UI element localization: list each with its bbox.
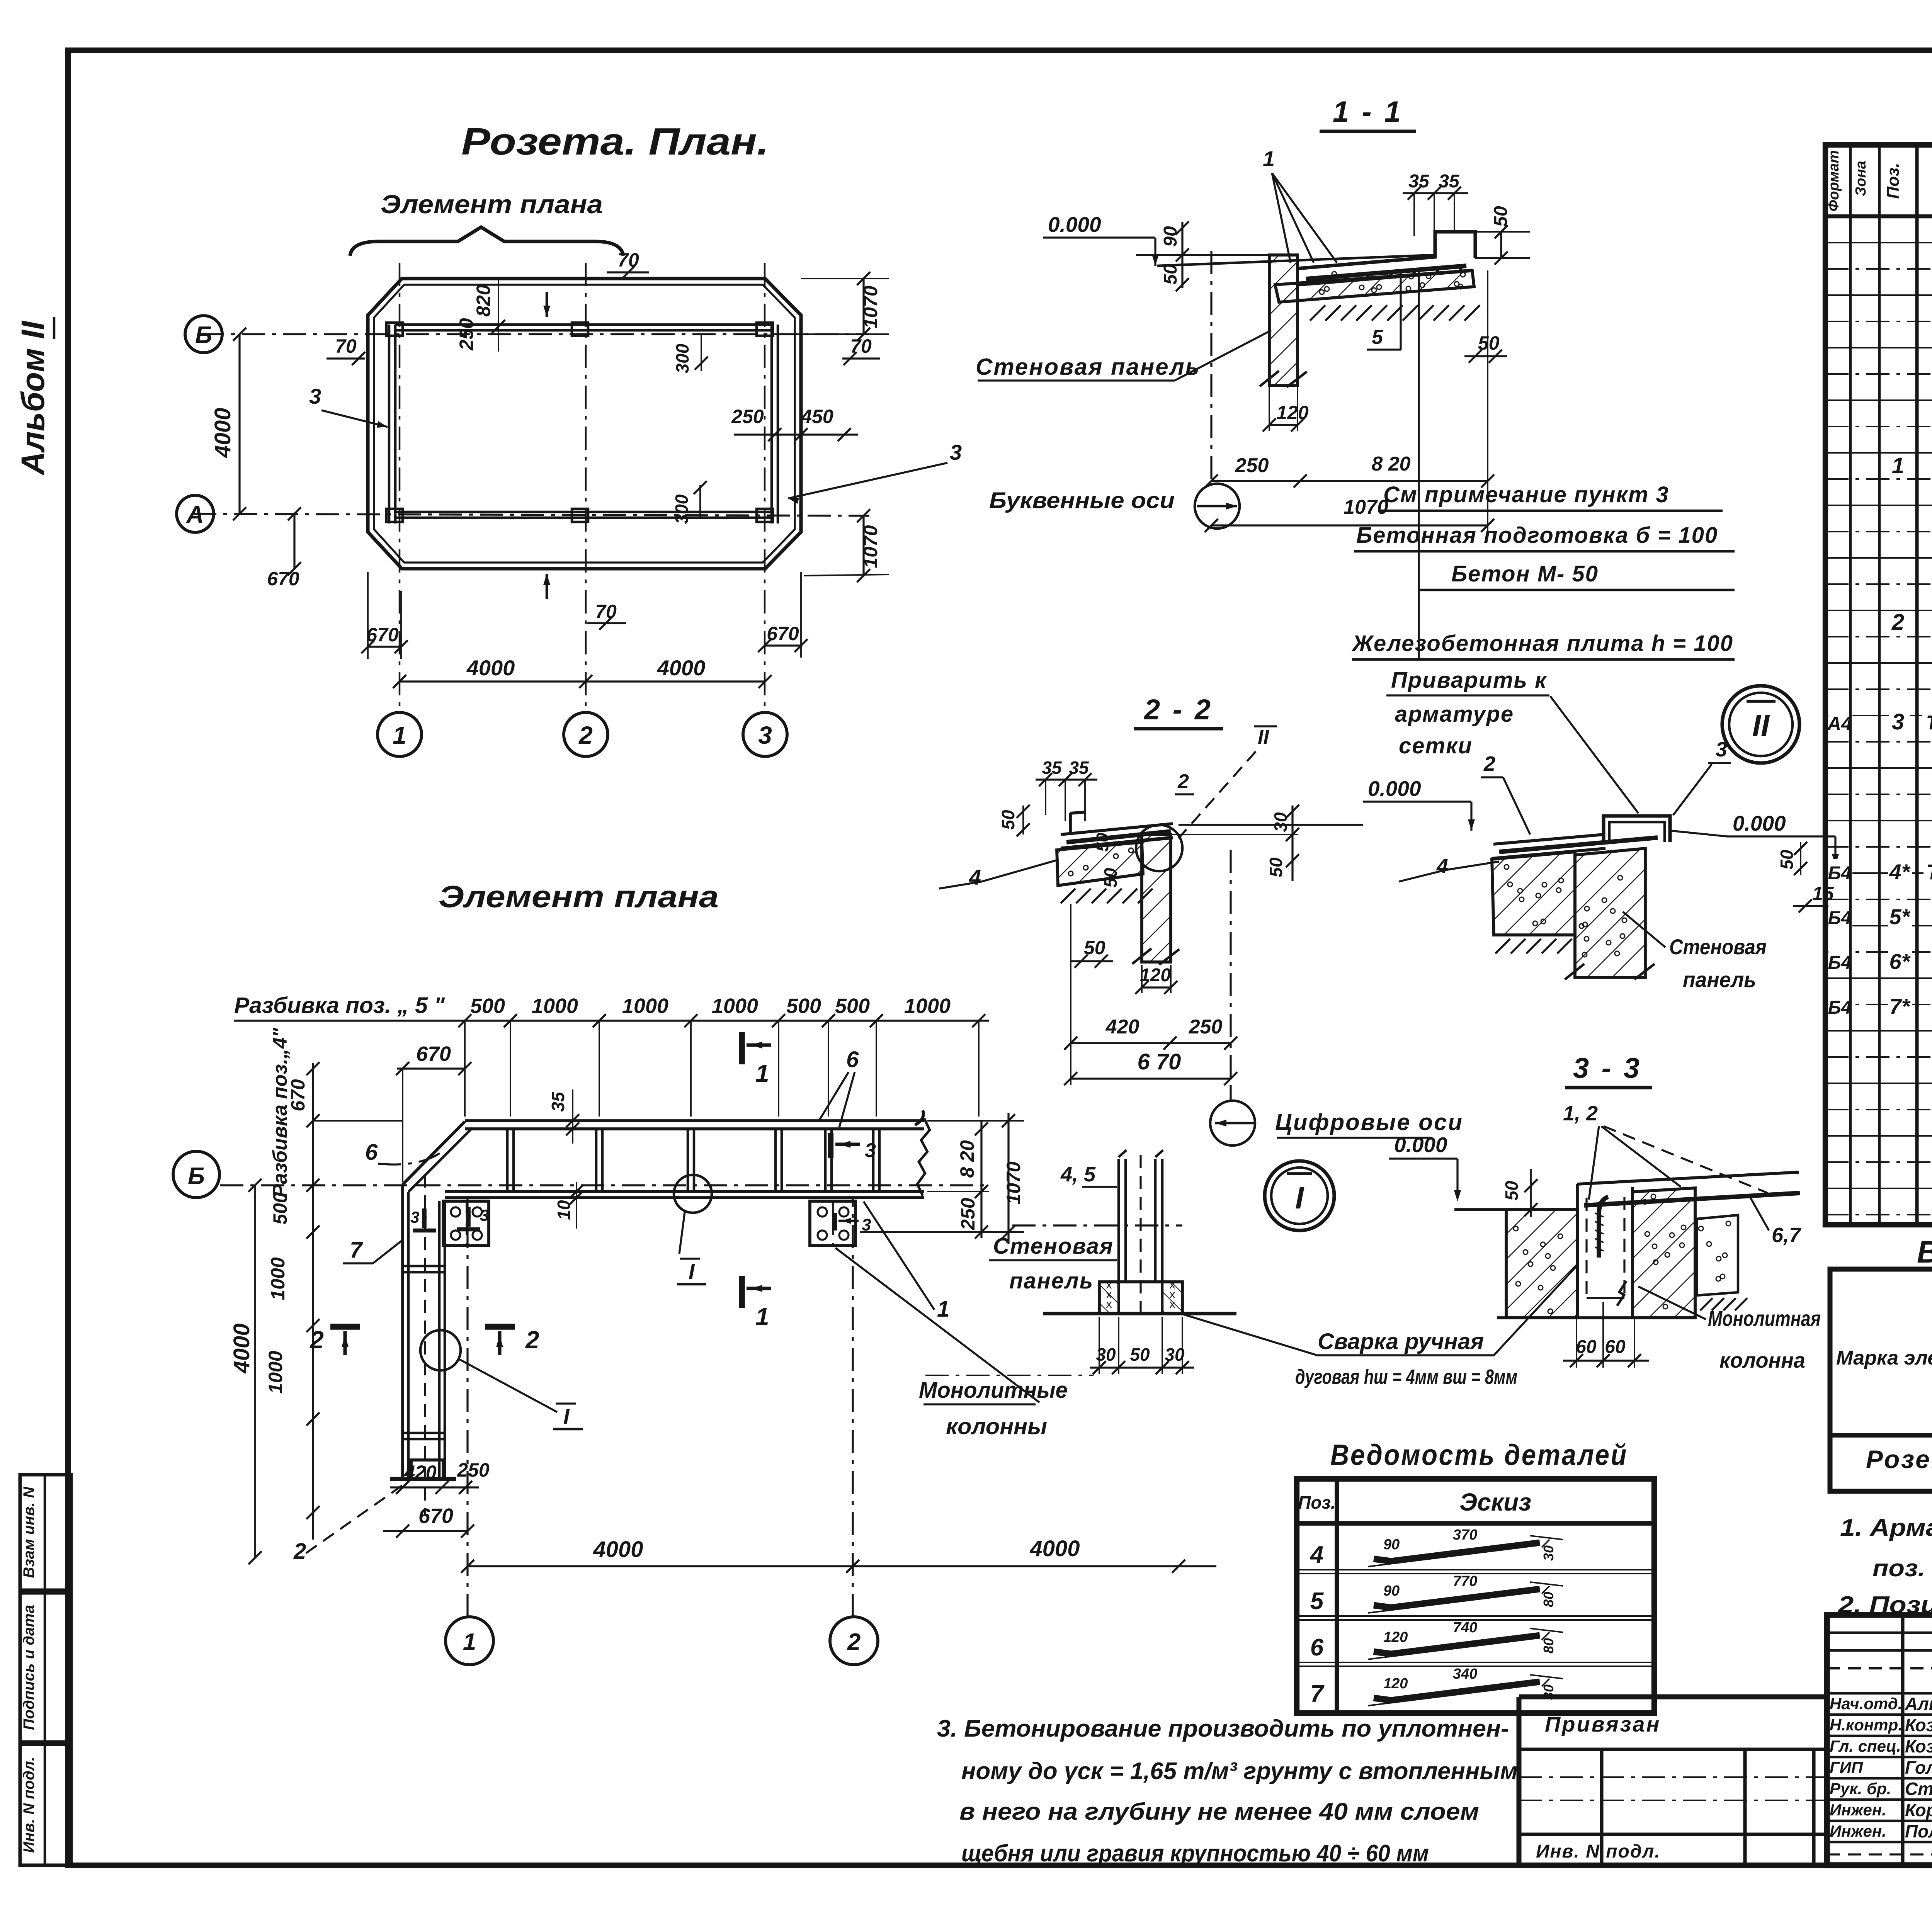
svg-text:Приварить к: Приварить к — [1391, 668, 1547, 693]
svg-text:5*: 5* — [1889, 904, 1911, 929]
svg-text:Монолитные: Монолитные — [919, 1378, 1068, 1403]
svg-text:670: 670 — [418, 1504, 453, 1528]
svg-text:250: 250 — [1235, 454, 1269, 477]
svg-text:3. Бетонирование производить: 3. Бетонирование производить по уплотнен… — [937, 1715, 1509, 1742]
svg-text:Инжен.: Инжен. — [1830, 1822, 1886, 1840]
svg-text:50: 50 — [1160, 264, 1181, 285]
svg-text:740: 740 — [1453, 1620, 1477, 1636]
svg-text:Ведомость деталей: Ведомость деталей — [1330, 1439, 1628, 1472]
svg-text:арматуре: арматуре — [1395, 702, 1514, 727]
svg-text:120: 120 — [1383, 1629, 1408, 1645]
svg-text:1. Арматурные сетки поз. „: 1. Арматурные сетки поз. „1" резать шири… — [1840, 1514, 1932, 1541]
svg-text:250: 250 — [1189, 1016, 1223, 1038]
svg-text:Инв. N подл.: Инв. N подл. — [20, 1757, 37, 1853]
svg-text:Козловичер: Козловичер — [1905, 1736, 1932, 1756]
svg-text:Разбивка поз. „ 5 ": Разбивка поз. „ 5 " — [234, 993, 446, 1018]
svg-text:50: 50 — [1100, 868, 1121, 888]
svg-text:Подпись и дата: Подпись и дата — [20, 1605, 37, 1730]
svg-text:1: 1 — [755, 1059, 769, 1087]
svg-text:1000: 1000 — [904, 994, 951, 1018]
svg-text:50: 50 — [1491, 206, 1511, 227]
svg-text:I: I — [563, 1404, 570, 1428]
svg-text:Розета. План.: Розета. План. — [461, 120, 769, 163]
svg-text:2: 2 — [525, 1326, 539, 1354]
svg-text:Станина: Станина — [1905, 1779, 1932, 1799]
svg-text:670: 670 — [366, 624, 399, 646]
svg-text:6: 6 — [846, 1047, 859, 1072]
svg-text:6,7: 6,7 — [1772, 1224, 1802, 1247]
svg-text:0.000: 0.000 — [1394, 1133, 1447, 1157]
svg-text:Корнилова: Корнилова — [1905, 1800, 1932, 1820]
svg-text:4000: 4000 — [210, 408, 235, 458]
svg-text:4000: 4000 — [657, 656, 706, 680]
svg-text:Б: Б — [195, 322, 212, 348]
svg-text:50: 50 — [1266, 857, 1286, 877]
svg-text:70: 70 — [617, 249, 639, 271]
svg-text:3: 3 — [865, 1139, 876, 1162]
svg-text:670: 670 — [267, 568, 299, 590]
svg-text:щебня или гравия крупностью: щебня или гравия крупностью 40 ÷ 60 мм — [961, 1840, 1429, 1867]
svg-text:7: 7 — [350, 1237, 363, 1263]
svg-text:Инв. N подл.: Инв. N подл. — [1536, 1841, 1661, 1862]
svg-text:60: 60 — [1605, 1337, 1626, 1357]
svg-text:1: 1 — [463, 1629, 476, 1655]
svg-text:1: 1 — [937, 1297, 949, 1322]
svg-text:500: 500 — [835, 994, 870, 1018]
svg-text:50: 50 — [1777, 850, 1797, 870]
svg-text:Бетонная подготовка б = 100: Бетонная подготовка б = 100 — [1356, 523, 1718, 548]
svg-text:2: 2 — [293, 1539, 306, 1564]
svg-text:30: 30 — [1541, 1684, 1556, 1700]
svg-text:1: 1 — [1263, 146, 1275, 171]
svg-text:2: 2 — [1891, 610, 1904, 635]
svg-text:70: 70 — [335, 335, 357, 357]
svg-text:370: 370 — [1453, 1527, 1477, 1543]
svg-text:3: 3 — [410, 1208, 419, 1226]
svg-text:x: x — [1170, 1298, 1175, 1310]
svg-text:4000: 4000 — [1029, 1536, 1080, 1561]
svg-text:II: II — [1258, 726, 1269, 748]
svg-text:2: 2 — [847, 1629, 861, 1655]
svg-text:См примечание пункт 3: См примечание пункт 3 — [1383, 482, 1669, 507]
svg-text:Марка элемента: Марка элемента — [1836, 1347, 1932, 1369]
svg-text:1070: 1070 — [1344, 496, 1388, 518]
svg-text:7*: 7* — [1889, 994, 1911, 1018]
svg-text:Бетон М- 50: Бетон М- 50 — [1451, 561, 1599, 586]
svg-text:1, 2: 1, 2 — [1563, 1102, 1598, 1125]
svg-text:Б4: Б4 — [1828, 863, 1852, 884]
svg-text:Полякова: Полякова — [1905, 1821, 1932, 1841]
svg-text:ГИП: ГИП — [1830, 1758, 1863, 1776]
svg-text:1: 1 — [393, 721, 406, 749]
svg-text:50: 50 — [1130, 1344, 1150, 1365]
svg-text:А: А — [186, 501, 204, 528]
svg-text:50: 50 — [1093, 833, 1112, 851]
svg-text:250: 250 — [456, 318, 477, 351]
svg-text:4: 4 — [969, 865, 981, 889]
svg-text:ТП 901-6- 81.85: ТП 901-6- 81.85 — [1926, 860, 1932, 884]
svg-text:Рук. бр.: Рук. бр. — [1830, 1779, 1891, 1798]
svg-text:ТП 901-6-8186-КЖ4.1.9.01,: ТП 901-6-8186-КЖ4.1.9.01, — [1926, 712, 1932, 734]
svg-text:3: 3 — [758, 721, 772, 749]
svg-text:90: 90 — [1160, 226, 1181, 247]
svg-text:2: 2 — [578, 721, 593, 749]
svg-text:50: 50 — [998, 810, 1018, 830]
svg-text:60: 60 — [1576, 1337, 1597, 1357]
svg-text:x: x — [1106, 1298, 1112, 1310]
svg-text:4: 4 — [1310, 1541, 1323, 1568]
svg-text:Розета: Розета — [1866, 1445, 1932, 1474]
svg-text:Зона: Зона — [1853, 161, 1869, 196]
svg-text:450: 450 — [801, 406, 833, 427]
svg-text:0.000: 0.000 — [1368, 777, 1421, 800]
svg-text:0.000: 0.000 — [1733, 811, 1786, 835]
svg-text:6: 6 — [365, 1140, 378, 1165]
svg-text:5: 5 — [1310, 1588, 1324, 1615]
svg-text:820: 820 — [473, 284, 494, 317]
svg-text:6 70: 6 70 — [1138, 1049, 1181, 1074]
svg-text:Стеновая: Стеновая — [1669, 935, 1767, 959]
svg-text:Б4: Б4 — [1828, 998, 1852, 1018]
svg-text:0.000: 0.000 — [1048, 212, 1101, 236]
svg-text:колонна: колонна — [1719, 1348, 1805, 1372]
svg-text:1000: 1000 — [712, 994, 758, 1018]
svg-text:Б: Б — [188, 1163, 205, 1190]
svg-text:Инжен.: Инжен. — [1830, 1801, 1886, 1819]
svg-text:670: 670 — [767, 623, 799, 644]
svg-text:670: 670 — [287, 1079, 309, 1112]
svg-text:1000: 1000 — [265, 1351, 286, 1394]
svg-text:Н.контр.: Н.контр. — [1830, 1716, 1903, 1734]
svg-text:90: 90 — [1383, 1583, 1400, 1599]
svg-text:5: 5 — [1372, 326, 1383, 348]
svg-text:Формат: Формат — [1826, 150, 1842, 212]
svg-text:1000: 1000 — [532, 994, 578, 1018]
svg-text:8 20: 8 20 — [1371, 453, 1410, 475]
svg-text:6*: 6* — [1889, 949, 1911, 974]
svg-text:120: 120 — [1383, 1676, 1408, 1692]
svg-text:50: 50 — [1502, 1181, 1522, 1201]
svg-text:1070: 1070 — [860, 286, 881, 328]
svg-text:8 20: 8 20 — [956, 1140, 978, 1178]
svg-text:300: 300 — [672, 494, 692, 524]
svg-text:Элемент плана: Элемент плана — [439, 879, 719, 914]
svg-text:250: 250 — [957, 1198, 979, 1230]
svg-text:Альбом II: Альбом II — [15, 320, 51, 476]
svg-text:35: 35 — [1069, 758, 1089, 778]
svg-text:4*: 4* — [1889, 860, 1911, 884]
svg-text:I: I — [689, 1259, 695, 1283]
svg-text:А4: А4 — [1827, 713, 1852, 734]
svg-text:Б4: Б4 — [1828, 953, 1852, 973]
svg-text:Разбивка поз.„4": Разбивка поз.„4" — [269, 1027, 291, 1198]
svg-text:колонны: колонны — [946, 1414, 1047, 1439]
svg-text:Поз.: Поз. — [1298, 1492, 1335, 1513]
svg-text:1: 1 — [755, 1303, 769, 1331]
svg-text:3: 3 — [1892, 709, 1904, 734]
svg-text:1: 1 — [1892, 453, 1904, 478]
svg-text:4000: 4000 — [466, 656, 515, 680]
svg-text:Эскиз: Эскиз — [1459, 1488, 1531, 1516]
svg-text:сетки: сетки — [1399, 733, 1473, 758]
svg-text:Гольдина: Гольдина — [1905, 1757, 1932, 1778]
svg-text:Элемент плана: Элемент плана — [381, 190, 603, 219]
svg-text:I: I — [1295, 1181, 1304, 1215]
svg-text:Стеновая панель: Стеновая панель — [976, 354, 1200, 380]
svg-text:35: 35 — [1439, 171, 1460, 192]
svg-text:4000: 4000 — [229, 1323, 254, 1373]
svg-text:300: 300 — [672, 343, 692, 373]
svg-text:80: 80 — [1541, 1638, 1556, 1654]
svg-text:70: 70 — [850, 335, 872, 357]
svg-text:2: 2 — [1177, 770, 1189, 793]
svg-text:Ведомость расхода стали на: Ведомость расхода стали на элемент, кг — [1917, 1235, 1932, 1269]
svg-text:35: 35 — [1042, 758, 1062, 778]
svg-text:Буквенные оси: Буквенные оси — [989, 488, 1175, 513]
svg-text:500: 500 — [786, 994, 821, 1018]
svg-text:Железобетонная плита h = 100: Железобетонная плита h = 100 — [1351, 631, 1733, 656]
svg-text:670: 670 — [416, 1042, 451, 1066]
svg-text:панель: панель — [1009, 1268, 1094, 1293]
svg-text:7: 7 — [1310, 1681, 1325, 1707]
svg-text:3 - 3: 3 - 3 — [1573, 1052, 1642, 1084]
svg-text:1070: 1070 — [1003, 1161, 1024, 1204]
svg-text:35: 35 — [548, 1091, 568, 1112]
svg-text:Сварка ручная: Сварка ручная — [1318, 1329, 1484, 1354]
svg-text:70: 70 — [595, 601, 617, 622]
svg-text:340: 340 — [1453, 1666, 1477, 1682]
svg-text:Б4: Б4 — [1828, 908, 1852, 928]
svg-text:в него на глубину не мен: в него на глубину не менее 40 мм слоем — [959, 1798, 1479, 1825]
svg-text:120: 120 — [1276, 402, 1309, 423]
svg-text:500: 500 — [269, 1192, 291, 1225]
svg-text:1000: 1000 — [267, 1257, 289, 1300]
svg-text:2 - 2: 2 - 2 — [1143, 693, 1213, 726]
svg-text:1000: 1000 — [622, 994, 668, 1018]
svg-text:2: 2 — [310, 1326, 324, 1354]
svg-text:2: 2 — [1483, 752, 1495, 775]
svg-text:3: 3 — [309, 384, 321, 408]
svg-text:4, 5: 4, 5 — [1060, 1163, 1096, 1186]
svg-text:4: 4 — [1436, 855, 1448, 878]
svg-text:Поз.: Поз. — [1884, 163, 1903, 199]
svg-text:Нач.отд.: Нач.отд. — [1830, 1694, 1902, 1713]
svg-text:770: 770 — [1453, 1573, 1477, 1589]
svg-text:поз. „ 2" - шириной - 430 мм: поз. „ 2" - шириной - 430 мм — [1872, 1555, 1932, 1582]
svg-text:3: 3 — [950, 440, 962, 464]
svg-text:ному до γск = 1,65 т/м³ грун: ному до γск = 1,65 т/м³ грунту с втоплен… — [961, 1758, 1518, 1785]
svg-text:250: 250 — [457, 1459, 490, 1481]
svg-text:120: 120 — [1140, 965, 1171, 986]
svg-text:420: 420 — [1105, 1016, 1139, 1038]
svg-text:1070: 1070 — [860, 525, 881, 568]
svg-text:Гл. спец.: Гл. спец. — [1830, 1737, 1901, 1755]
svg-text:дуговая hш = 4мм вш = 8мм: дуговая hш = 4мм вш = 8мм — [1295, 1365, 1517, 1389]
svg-text:4000: 4000 — [593, 1537, 643, 1562]
svg-text:6: 6 — [1310, 1634, 1324, 1661]
svg-text:Цифровые оси: Цифровые оси — [1275, 1109, 1463, 1135]
svg-text:30: 30 — [1541, 1545, 1556, 1561]
svg-text:90: 90 — [1383, 1536, 1400, 1553]
svg-text:500: 500 — [470, 994, 505, 1018]
svg-text:Козловичер: Козловичер — [1905, 1715, 1932, 1735]
svg-text:250: 250 — [731, 406, 764, 427]
svg-text:панель: панель — [1683, 967, 1756, 992]
svg-text:Взам инв. N: Взам инв. N — [20, 1486, 37, 1578]
svg-text:Монолитная: Монолитная — [1708, 1306, 1821, 1331]
svg-text:II: II — [1752, 708, 1770, 743]
svg-text:Стеновая: Стеновая — [993, 1234, 1114, 1259]
svg-text:1 - 1: 1 - 1 — [1333, 95, 1403, 128]
svg-text:3: 3 — [480, 1206, 489, 1224]
svg-text:Альтшуллер: Альтшуллер — [1905, 1694, 1932, 1714]
svg-text:80: 80 — [1541, 1592, 1556, 1607]
